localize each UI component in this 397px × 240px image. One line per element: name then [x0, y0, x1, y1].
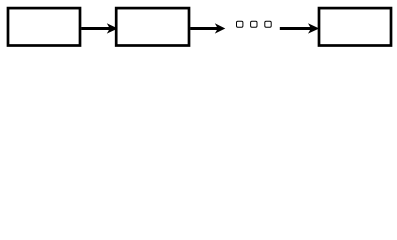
node box2 — [116, 8, 189, 45]
arrowhead of arrow3 — [308, 23, 319, 33]
arrowhead of arrow2 — [215, 23, 226, 33]
wire arrow2 shaft — [190, 27, 219, 30]
node box3 — [319, 8, 391, 45]
ellipsis glyph o (2) — [251, 21, 257, 27]
wire arrow1 shaft — [81, 27, 111, 30]
ellipsis glyph o (3) — [265, 21, 271, 27]
arrowhead of arrow1 — [107, 23, 118, 33]
node box1 — [8, 8, 80, 45]
ellipsis glyph o (1) — [237, 21, 243, 27]
wire arrow3 shaft — [280, 27, 312, 30]
